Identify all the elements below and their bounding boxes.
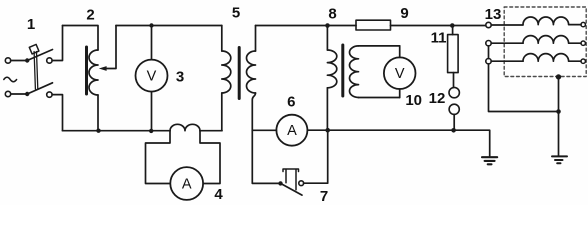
wire top of regulator loop xyxy=(116,25,222,27)
winding C xyxy=(523,54,581,62)
sphere gap upper ball xyxy=(449,87,459,97)
node 8 junction xyxy=(325,23,330,28)
transformer T5 secondary bottom lead xyxy=(252,93,255,130)
wire top of input loop xyxy=(63,26,99,51)
switch S1 linkage xyxy=(34,52,38,90)
svg-text:12: 12 xyxy=(429,90,446,107)
secondary bottom bus xyxy=(328,130,490,156)
wire resistor to sphere gap xyxy=(453,73,455,88)
wire tying B and C terminals xyxy=(489,46,559,112)
svg-text:13: 13 xyxy=(485,6,502,23)
terminal node 13 xyxy=(486,22,491,27)
wire xyxy=(11,93,26,95)
svg-text:10: 10 xyxy=(405,92,422,109)
svg-text:6: 6 xyxy=(287,94,295,111)
PT secondary winding xyxy=(350,46,359,98)
switch S1 lower pivot xyxy=(25,92,29,96)
svg-text:7: 7 xyxy=(320,188,328,205)
switch 7 handle xyxy=(283,169,299,190)
autotransformer T2 winding xyxy=(89,50,98,95)
svg-text:A: A xyxy=(182,177,192,193)
wire xyxy=(52,95,62,131)
node voltmeter top xyxy=(149,23,153,27)
winding C left terminal xyxy=(486,59,491,64)
autotransformer T2 core xyxy=(85,47,88,94)
switch S1 upper blade xyxy=(27,50,52,61)
svg-text:8: 8 xyxy=(328,6,336,23)
voltmeter V10 leads xyxy=(399,46,401,98)
svg-text:9: 9 xyxy=(400,5,408,22)
winding B right terminal xyxy=(581,41,585,45)
transformer T5 secondary top lead xyxy=(255,26,257,52)
secondary top wire xyxy=(256,25,357,27)
wire bus to transformer T5 xyxy=(200,130,222,132)
wire gap to bus xyxy=(453,114,455,130)
ammeter A6 xyxy=(276,115,307,146)
node voltmeter bottom xyxy=(149,129,153,133)
ground symbol left xyxy=(482,157,497,164)
switch S1 handle xyxy=(29,44,39,54)
switch 7 throw contact xyxy=(299,181,304,186)
node autotransformer bottom xyxy=(96,129,100,133)
transformer T5 primary top lead xyxy=(221,26,223,52)
transformer T5 core xyxy=(238,48,241,99)
svg-text:2: 2 xyxy=(86,7,94,24)
current transformer T4 primary humps xyxy=(170,124,200,130)
PT core xyxy=(341,45,344,96)
voltmeter V3 xyxy=(136,60,168,92)
switch 7 pivot xyxy=(278,181,282,185)
PT secondary top lead xyxy=(359,45,400,47)
CT secondary loop left xyxy=(146,131,171,184)
enclosure ground tap node xyxy=(556,74,561,79)
transformer T5 primary bottom lead xyxy=(221,93,223,131)
node gap bottom xyxy=(451,128,456,133)
wire T5 secondary to ammeter A6 xyxy=(252,129,276,131)
wire enclosure to ground xyxy=(558,77,560,156)
winding A xyxy=(523,17,581,25)
winding A right terminal xyxy=(581,22,585,26)
winding C lead xyxy=(491,60,523,62)
node ammeter/PT junction xyxy=(325,128,330,133)
transformer T5 primary winding xyxy=(222,51,231,93)
winding A lead xyxy=(491,24,523,26)
svg-text:5: 5 xyxy=(232,5,240,22)
svg-text:11: 11 xyxy=(431,30,447,47)
svg-text:3: 3 xyxy=(176,69,184,86)
ground symbol right xyxy=(552,156,567,163)
wiper arrow of T2 xyxy=(105,26,117,69)
svg-text:V: V xyxy=(395,66,405,82)
wire voltmeter V3 top lead xyxy=(151,26,153,60)
switch 7 loop left drop xyxy=(252,130,278,183)
wire A6 to node xyxy=(307,129,327,131)
node resistor 11 tap xyxy=(450,23,455,28)
PT secondary bottom lead xyxy=(359,97,400,99)
PT primary upper lead xyxy=(326,26,328,51)
sphere gap lower ball xyxy=(449,104,459,114)
winding B left terminal xyxy=(486,41,491,46)
wire voltmeter V3 bottom lead xyxy=(151,92,153,131)
svg-text:4: 4 xyxy=(214,186,223,203)
transformer T5 secondary winding xyxy=(247,51,256,93)
switch S1 upper throw contact xyxy=(47,58,52,63)
dashed enclosure of test object xyxy=(504,7,586,77)
switch S1 lower throw contact xyxy=(47,92,52,97)
primary bottom bus xyxy=(63,130,171,132)
AC sine symbol xyxy=(4,77,17,81)
resistor R11 lead xyxy=(452,26,454,35)
wire xyxy=(52,26,62,61)
winding C right terminal xyxy=(581,59,585,63)
switch S1 upper pivot xyxy=(25,58,29,62)
wire resistor to node 11 xyxy=(391,25,486,27)
voltmeter V10 xyxy=(384,57,416,89)
AC source terminal lower xyxy=(5,91,10,96)
winding B xyxy=(523,36,581,44)
AC source terminal upper xyxy=(5,58,10,63)
CT secondary loop right xyxy=(200,131,220,184)
ammeter A4 xyxy=(170,167,203,200)
PT primary winding xyxy=(327,50,336,88)
wire switch to node vertical xyxy=(304,130,328,183)
resistor R9 xyxy=(356,20,391,30)
wire xyxy=(11,60,25,62)
PT primary lower lead xyxy=(326,88,328,130)
node tie junction xyxy=(556,109,561,114)
svg-text:V: V xyxy=(147,69,157,85)
autotransformer T2 bottom lead xyxy=(97,95,99,131)
resistor R11 xyxy=(448,35,459,73)
switch 7 blade xyxy=(281,183,303,195)
svg-text:A: A xyxy=(287,123,297,139)
winding B lead xyxy=(491,42,523,44)
svg-text:1: 1 xyxy=(27,16,35,33)
switch S1 lower blade xyxy=(27,83,52,94)
